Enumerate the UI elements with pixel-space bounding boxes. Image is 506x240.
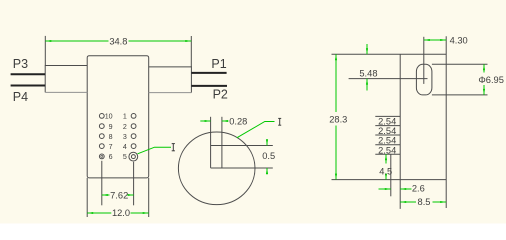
svg-text:34.8: 34.8 <box>109 37 127 47</box>
svg-text:10: 10 <box>105 113 113 121</box>
svg-text:5.48: 5.48 <box>359 69 377 79</box>
svg-text:2.54: 2.54 <box>378 145 396 155</box>
svg-text:7.62: 7.62 <box>110 190 128 200</box>
svg-text:4.5: 4.5 <box>379 166 392 176</box>
svg-text:8: 8 <box>109 133 113 141</box>
svg-text:6: 6 <box>109 153 113 161</box>
svg-text:4.30: 4.30 <box>450 36 468 46</box>
svg-text:0.28: 0.28 <box>229 117 247 127</box>
svg-text:2.54: 2.54 <box>378 126 396 136</box>
svg-text:28.3: 28.3 <box>329 115 347 125</box>
svg-text:2.6: 2.6 <box>412 183 425 193</box>
svg-text:Φ6.95: Φ6.95 <box>478 75 504 85</box>
svg-text:P1: P1 <box>211 57 226 71</box>
svg-text:0.5: 0.5 <box>262 151 275 161</box>
svg-text:P2: P2 <box>213 88 228 102</box>
svg-text:5: 5 <box>123 153 127 161</box>
svg-text:2: 2 <box>123 123 127 131</box>
svg-text:4: 4 <box>123 143 127 151</box>
svg-text:3: 3 <box>123 133 127 141</box>
svg-text:1: 1 <box>123 113 127 121</box>
svg-text:P3: P3 <box>13 57 28 71</box>
svg-text:8.5: 8.5 <box>418 197 431 207</box>
svg-text:P4: P4 <box>13 90 28 104</box>
svg-text:7: 7 <box>109 143 113 151</box>
svg-text:2.54: 2.54 <box>378 136 396 146</box>
svg-text:9: 9 <box>109 123 113 131</box>
svg-text:12.0: 12.0 <box>112 208 130 218</box>
